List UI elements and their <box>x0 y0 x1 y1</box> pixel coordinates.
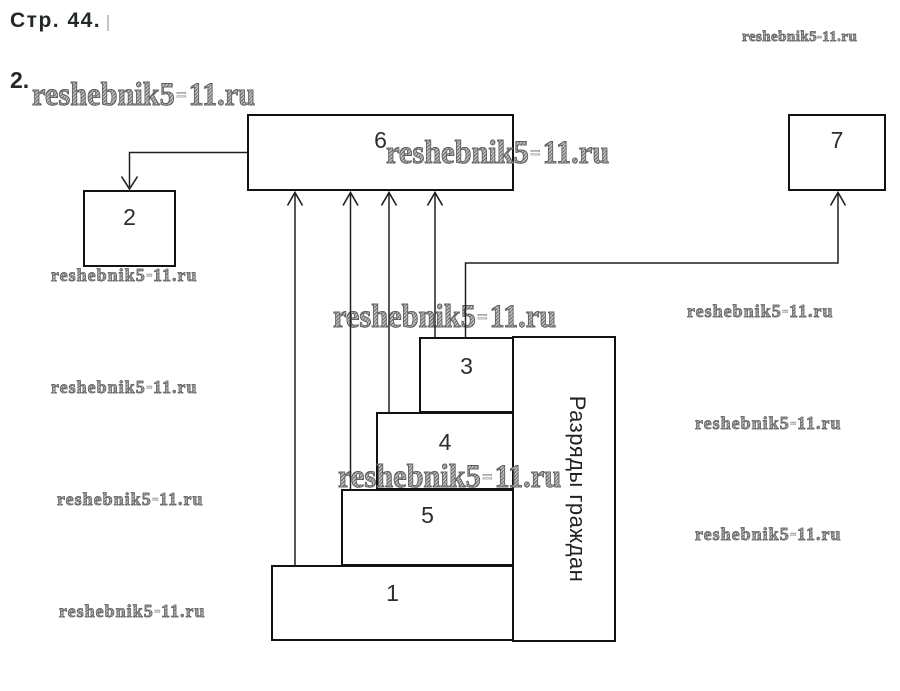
arrowhead into box 6 (from box3) <box>428 193 443 206</box>
watermark left column 2 <box>51 377 197 398</box>
header "Стр. 44." <box>10 9 101 33</box>
watermark right mid <box>687 301 833 322</box>
arrowhead into box 2 <box>122 177 138 190</box>
box 7 <box>788 114 886 191</box>
arrowhead into box 6 (from box5) <box>343 193 358 206</box>
wire box6 to box2 <box>130 153 248 188</box>
item number "2." <box>10 67 29 94</box>
watermark right column 3 <box>695 524 841 545</box>
box 3 <box>419 337 514 413</box>
wire box5 to box6 <box>350 193 352 489</box>
box 2 <box>83 190 176 267</box>
wire box4 to box6 <box>388 193 390 412</box>
watermark left column 4 <box>59 601 205 622</box>
watermark left column 3 <box>57 489 203 510</box>
arrowhead into box 6 (from box4) <box>382 193 397 206</box>
box 6 <box>247 114 514 191</box>
wire box1 to box6 <box>294 193 296 565</box>
tall box "Разряды граждан" <box>512 336 616 642</box>
wire box3 to box7 <box>466 193 839 337</box>
watermark inside box 6 <box>386 135 609 172</box>
arrowhead into box 6 (from box1) <box>288 193 303 206</box>
box 1 <box>271 565 514 641</box>
watermark big under "2." <box>32 77 255 114</box>
vertical label "Разряды граждан" <box>576 488 578 490</box>
watermark left column 1 <box>51 265 197 286</box>
watermark top-right small <box>742 29 857 46</box>
faint cursor artifact <box>107 15 109 31</box>
watermark center big <box>338 459 561 496</box>
box 4 <box>376 412 514 490</box>
wire box3 to box6 <box>434 193 436 337</box>
watermark mid big <box>333 299 556 336</box>
box 5 <box>341 489 514 566</box>
arrowhead into box 7 <box>831 193 846 206</box>
watermark right column 2 <box>695 413 841 434</box>
